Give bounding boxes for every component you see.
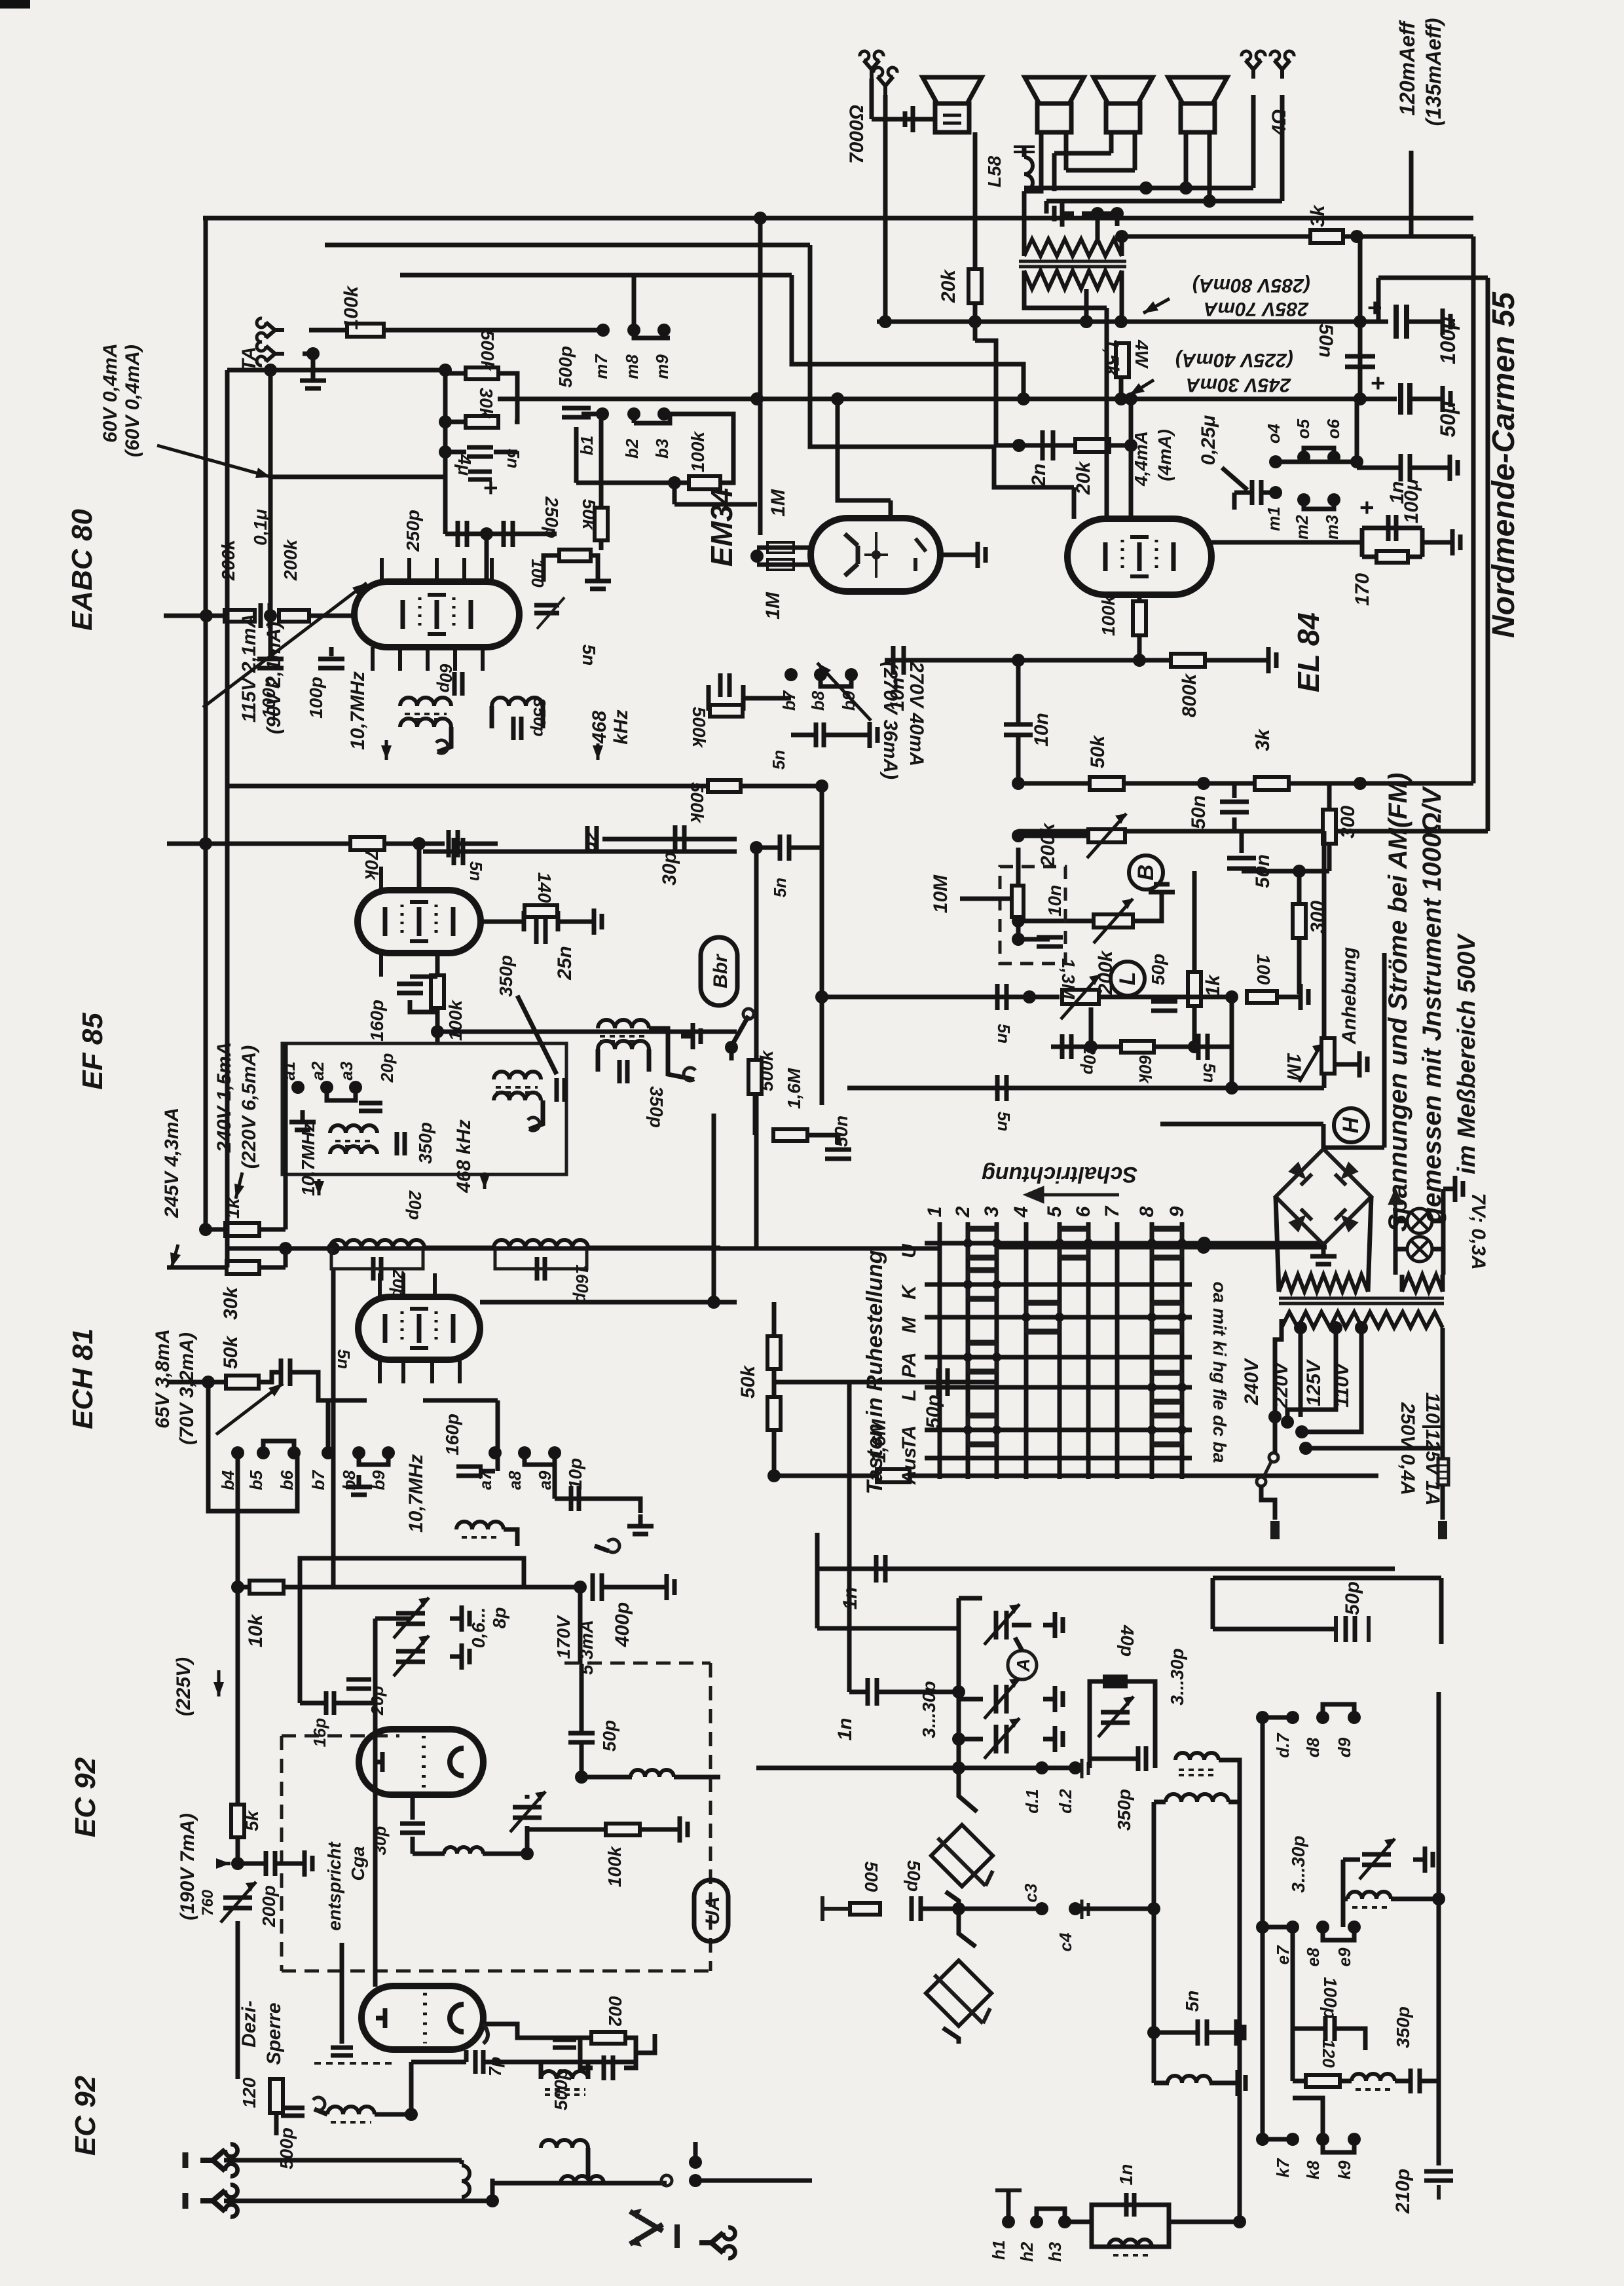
capacitor 50n tone b (1227, 858, 1256, 869)
matrix row K (925, 1283, 1192, 1287)
junction o line (1350, 455, 1363, 468)
junction k bus left (1256, 2133, 1269, 2146)
matrix dot c4r2 a (1022, 1313, 1031, 1322)
capacitor 50p ech (938, 1368, 948, 1396)
wire grid node line (885, 658, 1139, 663)
contact b4 (231, 1446, 244, 1459)
svg-text:L: L (1115, 972, 1140, 986)
wire x1155 down (754, 848, 759, 1247)
junction 10M bot (1012, 933, 1025, 946)
ground trim a (1043, 1612, 1063, 1638)
junction 20p (1084, 1040, 1098, 1053)
wire x2105 stub (1376, 278, 1381, 322)
capacitor 5n tone a (997, 984, 1006, 1010)
wire det loop right (498, 373, 517, 422)
wire 50p line (774, 1380, 995, 1385)
svg-text:(60V 0,4mA): (60V 0,4mA) (122, 345, 143, 457)
wire spk v10 (1115, 214, 1120, 226)
capacitor 50n psu (1345, 356, 1375, 367)
wire 500k bbr v (753, 1094, 758, 1135)
terminal 4ohm a (1242, 51, 1265, 79)
junction 300 node (1293, 865, 1306, 878)
junction 1k bottom (1188, 1040, 1201, 1053)
pot 1.3M treble (1062, 990, 1099, 1004)
contact b8 vol (814, 668, 827, 681)
wire 120 row m (1340, 2079, 1352, 2084)
wire ef85 grid v (417, 844, 422, 890)
resistor 20k coupling (1075, 439, 1109, 452)
wire y565 (227, 368, 445, 373)
svg-text:5n: 5n (466, 861, 486, 881)
wire cath gnd (558, 920, 582, 924)
wire 2n line (996, 443, 1075, 448)
wire tap110 (1306, 1328, 1443, 1448)
wire 500k a out (743, 696, 791, 701)
svg-text:b5: b5 (246, 1470, 266, 1490)
svg-text:1M: 1M (767, 489, 789, 517)
capacitor if5 (619, 1060, 627, 1083)
resistor 50k det (595, 508, 608, 540)
wire bridge top right (1323, 1146, 1384, 1150)
wire 50u gnd (1410, 397, 1431, 402)
wire y1522 a (822, 995, 1060, 1000)
resistor 500k vol b (708, 780, 741, 792)
junction b4 y2423 (231, 1581, 244, 1594)
wire eabc vert x413 (268, 370, 273, 616)
capacitor 1n bottom (1126, 2193, 1134, 2217)
svg-text:a9: a9 (535, 1471, 555, 1490)
svg-text:110V: 110V (1331, 1361, 1353, 1408)
svg-text:120: 120 (239, 2077, 259, 2108)
arrow schaltrichtung (1027, 1188, 1119, 1201)
speaker tweeter LS1 (923, 77, 982, 103)
svg-text:20k: 20k (938, 269, 959, 303)
lamp dial a (1407, 1209, 1432, 1233)
capacitor 100u cathode (1388, 515, 1396, 541)
wire x680 v (443, 370, 448, 534)
resistor 500k vol a (710, 705, 743, 717)
wire cath gnd (1422, 540, 1441, 545)
resistor 100k b (689, 476, 720, 489)
svg-text:5n: 5n (769, 750, 788, 770)
wire 300 node h (1242, 869, 1329, 874)
50p am2 tbar (1336, 1616, 1369, 1642)
ground 50u (1431, 386, 1450, 412)
svg-text:500k: 500k (756, 1049, 777, 1091)
ground trim c (1043, 1726, 1063, 1752)
resistor 1.6M bbr (773, 1129, 807, 1141)
wire g2 node down (435, 1008, 440, 1043)
wire 160p box (410, 975, 437, 979)
bus top y333 (203, 216, 1473, 221)
pointer 190V (216, 1862, 231, 1865)
capacitor 7p (475, 2050, 483, 2074)
wire 20k bottom (973, 303, 978, 341)
svg-text:10,7MHz: 10,7MHz (347, 671, 369, 750)
bf1 hook (313, 2097, 325, 2110)
terminal fm dipole (699, 2228, 735, 2258)
if4 dashes (496, 1087, 538, 1093)
wire y1598 (1051, 1045, 1232, 1049)
wire em34 top pin (889, 500, 893, 518)
tube EF85 (358, 867, 481, 977)
resistor 10k (249, 1581, 284, 1594)
wire spk v8 (1044, 201, 1049, 214)
junction osc y2423 (574, 1581, 587, 1594)
wire spk LS3 r (1133, 132, 1137, 170)
svg-text:5n: 5n (334, 1349, 354, 1369)
wire 250p mid v (485, 534, 489, 582)
wire lamp a r (1432, 1219, 1443, 1224)
capacitor if3 (537, 1257, 545, 1281)
wire 5n vol r (824, 733, 858, 738)
bridge diode 2 (1335, 1161, 1359, 1186)
svg-text:50n: 50n (831, 1115, 851, 1147)
resistor 1k5 4W (1116, 343, 1129, 377)
wire osc grid stub (373, 1703, 378, 1729)
matrix column 6 (1086, 1222, 1091, 1479)
junction spk3 (1203, 195, 1216, 208)
wire spk gnd2 (1082, 212, 1098, 216)
210p end (1437, 2185, 1441, 2200)
rail 285V (877, 320, 1388, 324)
contact o6 (1327, 451, 1340, 464)
junction el84 grid node (1133, 654, 1146, 667)
contact a8 (518, 1446, 531, 1459)
contact 110V (1299, 1442, 1312, 1455)
wire k8 up (1293, 2098, 1323, 2139)
svg-text:30k: 30k (476, 388, 496, 419)
wire a2 bracket (327, 1087, 356, 1100)
fm osc dashes (462, 1536, 500, 1539)
wire 50k grid v2 (772, 1369, 777, 1397)
trimmer d1 b arrow (984, 1678, 1020, 1719)
wire 300a up (1327, 783, 1332, 810)
svg-text:200p: 200p (259, 1885, 279, 1928)
wire 160p ech line (479, 1469, 495, 1474)
matrix dot c8r5 b (1177, 1425, 1187, 1434)
svg-text:1,5k: 1,5k (1101, 338, 1122, 377)
svg-text:350p: 350p (530, 698, 549, 736)
wire 250p line (445, 532, 557, 536)
capacitor 5n am (1198, 2019, 1207, 2046)
junction det a (439, 415, 452, 428)
junction y1522 vol (815, 990, 828, 1003)
wire spk v7 (1022, 191, 1027, 256)
wire 40p box (1090, 1681, 1155, 1768)
wire ant sw up (693, 2142, 698, 2162)
wire b1 h (581, 412, 602, 417)
bf2 mid dashes (545, 2089, 585, 2095)
wire ech tg down (496, 1400, 500, 1471)
svg-text:UA: UA (702, 1896, 724, 1924)
svg-text:10n: 10n (1044, 885, 1065, 916)
tap 240V (1294, 1321, 1307, 1334)
wire tone bottom (997, 1245, 1327, 1250)
svg-text:5: 5 (1044, 1205, 1065, 1217)
wire 50p to am (847, 1382, 852, 1692)
wire 120 down (274, 2113, 279, 2135)
matrix dot c8r4 a (1147, 1383, 1156, 1392)
wire bpot l (1018, 919, 1094, 924)
wire h2 bracket (1037, 2209, 1065, 2222)
svg-text:EABC 80: EABC 80 (66, 509, 98, 631)
svg-text:(135mAeff): (135mAeff) (1422, 18, 1445, 126)
tuning gang AM vane (934, 1975, 990, 2023)
resistor 100k el84 (1133, 601, 1146, 635)
svg-text:(220V 6,5mA): (220V 6,5mA) (238, 1045, 260, 1169)
svg-text:1: 1 (924, 1207, 946, 1218)
wire 1n loop (1092, 2205, 1169, 2222)
wire 300b v (1297, 871, 1302, 904)
pot 200k vol (1088, 829, 1125, 842)
wire ech plate line (480, 1300, 737, 1305)
pointer cga (340, 1943, 344, 2044)
svg-text:b2: b2 (622, 438, 642, 459)
wire 1M pot v down (1322, 1074, 1327, 1088)
capacitor 50n bbr (825, 1150, 851, 1159)
wire 1k left (206, 1227, 225, 1232)
svg-text:b6: b6 (277, 1470, 297, 1490)
capacitor 10n coupling (893, 646, 904, 675)
wire eabc grid cap v (268, 616, 273, 656)
wire det mid (445, 450, 466, 455)
pointer 285V (1143, 299, 1170, 313)
svg-text:350p: 350p (496, 955, 516, 997)
junction x413 y565 (264, 364, 277, 377)
matrix column 3 (995, 1222, 999, 1479)
inductor if4 a (494, 1072, 541, 1079)
svg-text:m1: m1 (1264, 506, 1283, 531)
junction agc x314 (199, 837, 212, 850)
plug prong l (1270, 1521, 1280, 1539)
pot 200k bass arrow (1094, 899, 1133, 943)
inductor am ant (561, 2176, 604, 2183)
wire 50p v2 (580, 1742, 584, 1782)
wire 20k to node (1109, 443, 1131, 448)
bridge rectifier diamond (1276, 1149, 1371, 1245)
svg-text:(190V 7mA): (190V 7mA) (177, 1813, 198, 1920)
wire OT pri right lead (1120, 271, 1124, 322)
svg-text:245V 4,3mA: 245V 4,3mA (161, 1108, 183, 1218)
wire 30p line (602, 837, 737, 842)
wire b2 down (632, 414, 637, 423)
contact b3 (657, 407, 671, 421)
svg-text:U: U (898, 1243, 920, 1258)
wire ant coil v (460, 2160, 464, 2164)
transformer power primary (1282, 1312, 1443, 1328)
svg-text:kHz: kHz (610, 709, 632, 744)
resistor 500 am (850, 1903, 880, 1915)
svg-text:gemessen mit Jnstrument 1000Ω/: gemessen mit Jnstrument 1000Ω/V (1418, 785, 1447, 1224)
svg-text:a2: a2 (308, 1061, 327, 1080)
svg-text:50k: 50k (1087, 735, 1109, 768)
inductor bf1 (327, 2107, 375, 2114)
capacitor 10n dash (1037, 937, 1063, 946)
wire c4 line (1080, 1907, 1154, 1911)
wire am bus y2583b (877, 1690, 959, 1695)
bus y420 corner (792, 275, 1024, 399)
wire bf2 tail (586, 2148, 591, 2179)
svg-text:c3: c3 (1021, 1883, 1041, 1902)
junction tone b (1354, 777, 1367, 790)
transformer T-out primary winding (1024, 271, 1122, 289)
wire 10n tone v (1016, 735, 1021, 783)
svg-text:4W: 4W (1132, 339, 1152, 369)
wire am top y2409 (1213, 1576, 1441, 1581)
trimmer 3-30p d2 (1101, 1712, 1130, 1723)
svg-text:160p: 160p (442, 1414, 462, 1455)
pointer 270V (817, 663, 871, 721)
wire e7 line (1263, 1925, 1293, 1930)
wire 200p r (275, 1862, 293, 1866)
svg-text:100k: 100k (1098, 594, 1118, 636)
bus d y2699 (756, 1766, 1075, 1771)
wire y728 (270, 475, 445, 479)
svg-text:468: 468 (589, 711, 610, 744)
svg-text:9: 9 (1166, 1206, 1188, 1217)
svg-text:500k: 500k (687, 782, 707, 824)
wire b5 bracket (263, 1441, 294, 1453)
terminal 7000ohm a (860, 51, 883, 79)
ground osc trim a (450, 1605, 470, 1632)
capacitor 1n af (876, 1555, 885, 1583)
junction trim chain (952, 1733, 965, 1746)
junction 30k a (327, 1242, 340, 1255)
capacitor 16p (326, 1691, 334, 1715)
wire e to row (1291, 1927, 1295, 2029)
svg-text:d8: d8 (1303, 1737, 1323, 1757)
svg-text:8: 8 (1136, 1206, 1158, 1217)
wire 1n loop out (1169, 2220, 1240, 2224)
wire am bus y2583a (849, 1690, 868, 1695)
svg-text:L58: L58 (984, 155, 1005, 187)
transformer power HV winding (1279, 1275, 1368, 1292)
wire osc coil line (413, 1852, 445, 1856)
contact a9 (548, 1446, 561, 1459)
wire 210p v (1437, 2081, 1441, 2165)
capacitor 160p ef85 (397, 984, 423, 993)
wire cath cap wire (1362, 526, 1422, 531)
terminal TA a (257, 318, 284, 342)
capacitor 25n (536, 919, 545, 944)
bf1 dashes (331, 2121, 371, 2124)
svg-text:m9: m9 (652, 354, 672, 379)
svg-text:H: H (1338, 1116, 1363, 1133)
wire 5k up (236, 1587, 240, 1805)
resistor 70k (350, 837, 384, 850)
junction det b (439, 445, 452, 459)
matrix row TA (925, 1428, 1192, 1433)
capacitor 210p (1424, 2171, 1453, 2181)
svg-text:10n: 10n (1031, 713, 1052, 747)
svg-text:m3: m3 (1322, 515, 1342, 540)
bus y420 (400, 273, 792, 278)
junction OT pri mid (1080, 315, 1093, 328)
pot 200k vol arrow (1087, 814, 1126, 858)
gang link 1 (959, 1768, 977, 1812)
svg-text:160p: 160p (572, 1264, 592, 1303)
ground b8 (346, 1475, 372, 1495)
svg-text:0,1μ: 0,1μ (250, 509, 270, 546)
wire bf1 tail (314, 2109, 327, 2114)
h1 Tbar (995, 2188, 1022, 2192)
svg-text:2: 2 (952, 1206, 974, 1218)
svg-text:5k: 5k (242, 1810, 262, 1831)
svg-text:Sperre: Sperre (263, 2002, 285, 2065)
rail 245V screens (227, 1246, 940, 1251)
resistor 1.6M ech (877, 1469, 910, 1482)
wire 1k5 bot (1119, 375, 1124, 399)
wire 5k down (236, 1837, 240, 1864)
resistor 50k tone (1090, 777, 1124, 790)
wire 1k right (259, 1227, 286, 1232)
svg-text:a8: a8 (505, 1471, 525, 1490)
am120 dashes (1356, 2088, 1392, 2091)
ground em34 (966, 542, 986, 568)
trimmer osc b arrow (394, 1636, 429, 1676)
wire lamp gnd v (1441, 1189, 1446, 1198)
circle L (1111, 962, 1145, 996)
svg-text:5n: 5n (579, 645, 599, 666)
wire osc coil r (483, 1852, 527, 1856)
ground if5 (681, 1023, 701, 1049)
svg-text:1M: 1M (762, 591, 784, 620)
wire fm af line (817, 1567, 1395, 1571)
bus x314 (204, 218, 208, 1229)
pointer 115V (203, 583, 367, 707)
lamp dial b (1407, 1237, 1432, 1262)
matrix dot c2r5 a (963, 1425, 972, 1434)
junction spk5 (1111, 207, 1124, 220)
matrix dot c8r0 b (1177, 1239, 1187, 1248)
wire 100 left (544, 555, 559, 582)
resistor 100k ef85 (431, 975, 444, 1008)
contact k7 (1286, 2133, 1299, 2146)
wire am rect top r (1228, 1800, 1240, 1805)
resistor 5k (231, 1805, 244, 1837)
trimmer d1 a (996, 1611, 1006, 1640)
wire 500k loop r (741, 685, 746, 711)
junction y1522 b (1023, 990, 1036, 1003)
wire L58 top (1022, 145, 1027, 157)
if5 tail hook (684, 1068, 695, 1081)
resistor 1M em34 b (767, 559, 794, 570)
svg-text:d.2: d.2 (1056, 1789, 1075, 1814)
wire am out r (1209, 2081, 1226, 2086)
svg-text:b1: b1 (577, 436, 597, 455)
ground 5n vol (858, 722, 877, 748)
svg-text:h2: h2 (1017, 2241, 1037, 2262)
capacitor 100p out (318, 659, 344, 668)
gang link 4 (943, 2028, 959, 2044)
svg-text:210p: 210p (1392, 2169, 1414, 2214)
svg-text:EC 92: EC 92 (69, 1757, 101, 1837)
junction 190V (231, 1857, 244, 1870)
wire 1M pot v up (1322, 831, 1327, 1038)
resistor 20k speaker (969, 269, 982, 303)
contact b9 (382, 1446, 395, 1459)
wire am bus v2201 (1439, 1578, 1444, 1644)
tube EC92 mix (361, 1986, 483, 2050)
wire x1248 v (815, 1533, 820, 1628)
junction spk4 (1091, 207, 1104, 220)
contact b6 (287, 1446, 301, 1459)
pointer 225V (217, 1670, 221, 1696)
junction gang mid (952, 1902, 965, 1915)
matrix dot c2r3 b (992, 1353, 1001, 1362)
wire b2 to em34 (673, 483, 677, 504)
